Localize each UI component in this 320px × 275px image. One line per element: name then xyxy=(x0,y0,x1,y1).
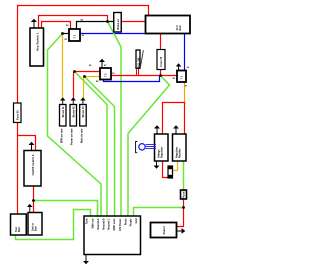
svg-text:Batt: Batt xyxy=(18,227,21,232)
wire black node to relay R1 left xyxy=(63,33,70,35)
svg-text:Neutral B: Neutral B xyxy=(103,218,106,229)
wire red relay R2 to node N2 xyxy=(111,75,177,77)
ECU box xyxy=(84,216,141,264)
wire red on/off to battery B2 xyxy=(33,186,35,213)
node junction N2 xyxy=(159,74,162,77)
wire yellow regulator2 to fuse F2 xyxy=(173,161,178,171)
svg-text:Shift out: Shift out xyxy=(92,218,95,228)
svg-text:Regulator: Regulator xyxy=(161,147,164,158)
wire green D4 node to ECU xyxy=(48,34,102,217)
node junction N3 xyxy=(182,206,185,209)
svg-text:Fuse 30: Fuse 30 xyxy=(16,110,20,120)
wire red key switch feed 2 xyxy=(42,22,71,30)
svg-text:KILL SW: KILL SW xyxy=(137,57,140,68)
wire yellow node to connector P1 xyxy=(62,34,64,99)
connector P2 xyxy=(70,98,77,145)
svg-text:7 1: 7 1 xyxy=(180,75,184,79)
svg-text:Key Switch 1: Key Switch 1 xyxy=(35,32,39,51)
rectifier xyxy=(173,126,187,161)
svg-text:On/Off switch A: On/Off switch A xyxy=(31,155,35,176)
svg-text:RPM sw wire: RPM sw wire xyxy=(61,128,64,143)
wire yellow dot2 to relay R2 xyxy=(85,76,101,78)
node junction dot J1 xyxy=(106,20,109,23)
svg-text:7 1: 7 1 xyxy=(104,73,108,77)
svg-text:Batt: Batt xyxy=(178,25,182,30)
node junction dot2 xyxy=(83,75,86,78)
wire red node N3 to starter xyxy=(177,208,184,227)
svg-text:Batt: Batt xyxy=(35,226,38,231)
svg-text:Starter: Starter xyxy=(162,226,166,234)
wire red left column lower xyxy=(17,123,19,215)
starter motor xyxy=(151,223,185,238)
relay R2 xyxy=(100,60,111,80)
svg-text:Neutral C: Neutral C xyxy=(108,218,111,229)
wire blue main bus xyxy=(80,33,146,35)
wire red kill switch drop 2 xyxy=(138,69,140,76)
svg-text:Brake sw: Brake sw xyxy=(117,19,120,30)
node junction dot J2 relay1 xyxy=(61,32,64,35)
svg-text:Pulse: Pulse xyxy=(125,218,128,225)
wire green D1 dot1 to ECU xyxy=(75,72,108,217)
wire blue battery to relay R3 xyxy=(184,34,186,71)
node junction dot1 xyxy=(73,70,76,73)
wire red brake box to battery xyxy=(122,21,146,23)
stator plug connector xyxy=(136,142,156,153)
svg-text:7 1: 7 1 xyxy=(73,34,77,38)
wire orange relay R3 bottom xyxy=(184,82,186,103)
relay R3 xyxy=(177,64,186,82)
wire blue relay R2 bottom to node N2 xyxy=(104,76,160,82)
wire green regulator2 to fuse F4 xyxy=(183,161,185,190)
voltage regulator xyxy=(155,126,169,168)
battery 12V main xyxy=(146,16,191,34)
wire red kill switch drop 1 xyxy=(136,69,138,76)
kill switch S2 xyxy=(136,50,143,68)
wire yellow dot2 to connector P3 xyxy=(84,77,85,100)
on/off switch xyxy=(24,143,41,187)
wire red regulator1 to fuse F2 xyxy=(163,161,169,178)
wire red fuse F3 to node N2 xyxy=(160,70,162,76)
svg-text:Neutral A: Neutral A xyxy=(97,218,100,229)
fuse F1 xyxy=(14,103,22,123)
wire red battery+ top run xyxy=(18,6,149,104)
key switch SW1 xyxy=(30,20,44,67)
svg-text:Rectifier: Rectifier xyxy=(179,148,182,158)
wire black relay R1 top to junction xyxy=(77,22,114,30)
svg-text:Brown #3: Brown #3 xyxy=(82,106,85,117)
wire green V1 junction to ECU xyxy=(108,22,122,217)
battery B2 xyxy=(28,205,42,236)
fuse F2 xyxy=(168,166,173,178)
svg-text:Fuse1: Fuse1 xyxy=(182,189,186,198)
svg-text:MAP sens: MAP sens xyxy=(113,218,116,231)
connector P3 xyxy=(80,98,87,143)
fuse F3 xyxy=(157,50,165,70)
wire green battery dot to ECU xyxy=(34,201,98,217)
svg-text:Brown #1: Brown #1 xyxy=(62,106,65,117)
wire red battery bottom to fuse F3 xyxy=(160,34,162,50)
wire red dot1 to connector P2 xyxy=(74,72,75,100)
svg-text:Power sw wire: Power sw wire xyxy=(71,128,74,145)
wire green D3 node N2 to ECU xyxy=(128,76,170,217)
wire green node N3 to ECU right entry xyxy=(134,208,184,217)
node junction battery dot xyxy=(32,199,35,202)
relay R1 xyxy=(69,29,80,41)
fuse F4 xyxy=(181,189,187,199)
svg-text:Tach: Tach xyxy=(86,218,89,224)
svg-text:Fuse 15: Fuse 15 xyxy=(159,56,163,66)
svg-text:Gnd: Gnd xyxy=(135,218,138,223)
wire red regulator feed loop xyxy=(163,103,185,135)
svg-text:Purple: Purple xyxy=(130,218,133,226)
wire red branch to on/off switch xyxy=(18,136,36,151)
svg-text:12V Power: 12V Power xyxy=(119,218,122,231)
wire red dot1 to relay R2 xyxy=(75,71,101,73)
brake switch box xyxy=(114,13,122,33)
wire green battery B1 to ECU xyxy=(16,210,91,240)
wire red fuse F4 to node N3 xyxy=(183,199,185,208)
svg-text:Main rly wire: Main rly wire xyxy=(81,128,84,143)
connector P1 xyxy=(60,98,67,143)
wire green D2 dot2 to ECU xyxy=(85,77,115,217)
battery B1 xyxy=(11,214,27,235)
wire red key switch feed 1 xyxy=(39,16,108,29)
svg-text:Brown #2: Brown #2 xyxy=(73,106,76,117)
